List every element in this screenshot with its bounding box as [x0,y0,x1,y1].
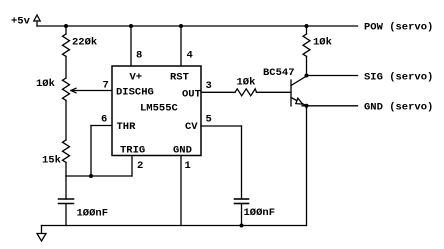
svg-text:1ØØnF: 1ØØnF [244,207,276,219]
svg-text:CV: CV [185,121,198,133]
ground symbol [37,226,46,242]
wire wiper to pin 7 [71,90,112,92]
wire pin 1 stub [180,156,182,226]
svg-text:1: 1 [185,160,191,172]
svg-text:LM555C: LM555C [140,103,179,115]
svg-text:5: 5 [206,114,212,126]
resistor 220k [63,26,70,56]
resistor 10k pullup [303,26,310,76]
wire base [257,91,292,93]
svg-text:4: 4 [187,50,193,62]
wire GND servo to rail [306,106,308,226]
capacitor 100nF left [59,199,74,226]
op-amp U1 LM555C box [112,66,201,156]
junction dot rail/pin4 [179,24,183,28]
svg-text:1ØØnF: 1ØØnF [77,208,109,220]
svg-text:3: 3 [206,80,212,92]
wire pin 4 stub [180,26,182,66]
wire pot to 15k [65,100,67,140]
svg-text:V+: V+ [130,72,143,84]
wire SIG [307,75,358,77]
svg-text:SIG (servo): SIG (servo) [364,72,433,84]
wire THR vertical [90,126,92,177]
junction dot emitter/GND [305,104,309,108]
svg-text:DISCHG: DISCHG [116,87,154,99]
wire pin 5 to cap [201,126,242,199]
svg-text:RST: RST [170,72,189,84]
resistor 15k [63,140,70,162]
wire GND servo [302,105,358,107]
svg-text:POW (servo): POW (servo) [364,22,433,34]
svg-text:1Øk: 1Øk [237,77,256,89]
wire trig node to cap [65,176,67,199]
wire bottom ground rail [42,225,307,227]
wire top rail +5V [37,25,358,27]
svg-text:15k: 15k [42,155,61,167]
junction dot rail/220k [64,24,68,28]
svg-text:8: 8 [136,50,142,62]
svg-text:THR: THR [117,121,137,133]
junction dot rail/pin8 [129,24,133,28]
svg-text:+5v: +5v [11,16,31,28]
transistor Q1 BC547 [291,76,307,106]
junction dot cap right/rail [240,224,244,228]
wire 220k to pot [65,56,67,78]
wire 15k to trig node [65,162,67,176]
svg-text:OUT: OUT [182,89,201,101]
wire THR to pin 6 [91,125,112,127]
svg-text:1Øk: 1Øk [313,37,332,49]
junction dot thr/trig [89,174,93,178]
wire pin 3 out [201,91,235,93]
wire trig node horizontal [66,175,132,177]
svg-text:GND: GND [173,145,192,157]
svg-text:BC547: BC547 [263,67,295,79]
wire pin 8 stub [130,26,132,66]
svg-text:TRIG: TRIG [120,145,145,157]
svg-text:GND (servo): GND (servo) [364,102,433,114]
svg-text:22Øk: 22Øk [72,37,97,49]
wire pin 2 stub [131,156,133,177]
potentiometer 10k [63,78,77,100]
svg-text:2: 2 [137,160,143,172]
svg-text:6: 6 [101,114,107,126]
power symbol +5v [34,15,40,26]
junction dot collector/SIG [305,74,309,78]
resistor 10k base [235,89,257,96]
capacitor 100nF right [235,199,249,226]
svg-text:1Øk: 1Øk [36,78,55,90]
junction dot rail/10k pullup [305,24,309,28]
svg-text:7: 7 [103,80,109,92]
